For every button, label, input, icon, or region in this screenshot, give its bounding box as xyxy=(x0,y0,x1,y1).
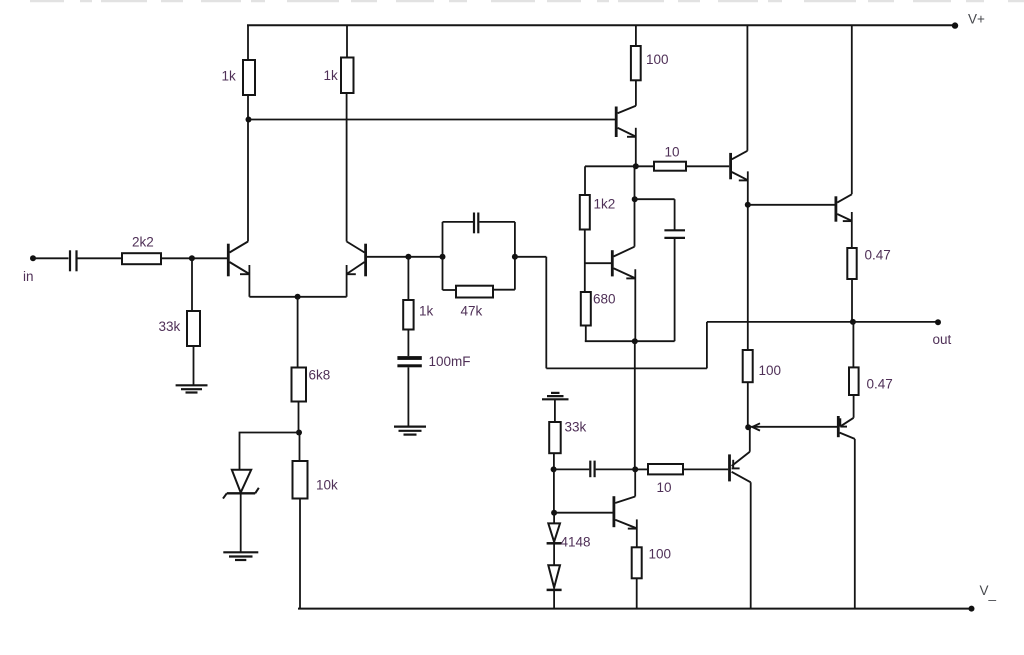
svg-text:100mF: 100mF xyxy=(429,354,471,369)
wire Q8 collector to rail xyxy=(851,25,853,194)
wire feedback up xyxy=(706,322,708,369)
wire Q5 emitter down xyxy=(636,519,638,547)
ground inverted bias xyxy=(542,393,569,399)
wire D2 to V- rail xyxy=(553,590,555,609)
wire 100 top to Q3 xyxy=(635,80,637,106)
wire Q2 base to node B xyxy=(367,256,409,258)
resistor 47k xyxy=(456,286,493,298)
resistor 680 xyxy=(581,292,591,326)
wire Q2 collector up xyxy=(346,93,348,242)
wire node K to Q5 base xyxy=(554,512,613,514)
wire Q6 collector to rail xyxy=(746,25,748,151)
input terminal dot xyxy=(30,255,36,261)
arrow on node M wire xyxy=(752,423,760,430)
wire D1 to D2 xyxy=(553,543,555,565)
resistor 10 lower xyxy=(648,464,683,474)
ground 100mF xyxy=(394,427,426,435)
resistor 6k8 xyxy=(292,368,307,402)
wire tail to 6k8 xyxy=(297,297,299,368)
resistor 2k2 xyxy=(122,253,161,264)
resistor 10k xyxy=(293,461,308,499)
svg-text:1k: 1k xyxy=(324,68,339,83)
wire 0.47 lower to Q9 emitter xyxy=(853,395,855,418)
transistor Q4 VAS xyxy=(612,247,635,279)
svg-text:100: 100 xyxy=(649,547,672,562)
out terminal dot xyxy=(935,319,941,325)
ground zener xyxy=(223,552,258,560)
V+ terminal dot xyxy=(952,22,958,28)
svg-text:33k: 33k xyxy=(159,319,181,334)
resistor 10 top xyxy=(654,162,686,171)
svg-text:in: in xyxy=(23,269,34,284)
node tail dot xyxy=(295,294,301,300)
wire Q7 emitter up xyxy=(749,427,751,452)
node C dot xyxy=(296,430,302,436)
wire node A to 33k xyxy=(191,258,193,311)
wire 10 lower to Q7 base xyxy=(683,468,728,470)
screenshot edge artifact dashes xyxy=(30,0,1024,2)
resistor 1k left xyxy=(243,60,255,95)
capacitor bias xyxy=(590,461,594,478)
wire Q4 collector up xyxy=(634,166,636,246)
capacitor C1 xyxy=(70,250,77,271)
wire in to C1 xyxy=(33,257,69,259)
node N dot xyxy=(850,319,856,325)
wire Q1 collector up xyxy=(247,95,249,242)
wire 1k left to rail xyxy=(247,25,249,60)
capacitor miller xyxy=(664,230,685,238)
wire feedback across xyxy=(546,367,707,369)
wire 1k right to rail xyxy=(346,25,348,57)
resistor 100 bias xyxy=(632,547,642,578)
node M dot xyxy=(745,424,751,430)
wire 0.47 upper to node N xyxy=(851,279,853,322)
wire out line xyxy=(853,321,938,323)
wire cap to node I xyxy=(596,468,636,470)
wire Q4 emitter down xyxy=(634,269,636,341)
wire Q7 collector to V- rail xyxy=(750,482,752,608)
V- terminal dot xyxy=(969,606,975,612)
wire 47k left xyxy=(443,289,457,291)
node A dot xyxy=(189,255,195,261)
zener diode Z1 xyxy=(223,470,259,499)
svg-text:10k: 10k xyxy=(316,478,338,493)
wire node F to 10 xyxy=(636,165,654,167)
transistor Q9 lower output xyxy=(838,416,855,439)
capacitor 100mF xyxy=(397,356,421,367)
diode D1 xyxy=(547,523,562,543)
wire comp top right xyxy=(479,221,515,223)
resistor 100 top xyxy=(631,46,641,80)
wire node C to 10k xyxy=(299,433,301,462)
node D dot xyxy=(440,254,446,260)
wire feedback to out line xyxy=(707,321,853,323)
node B dot xyxy=(405,254,411,260)
transistor Q6 upper driver xyxy=(731,151,748,181)
node G dot xyxy=(632,196,638,202)
wire node M to Q9 base xyxy=(748,426,837,428)
wire miller cap top xyxy=(674,199,676,230)
wire node B to node D xyxy=(408,256,442,258)
wire node F to 1k2 branch xyxy=(585,165,636,167)
svg-text:100: 100 xyxy=(759,363,782,378)
wire feedback down xyxy=(545,257,547,369)
svg-text:33k: 33k xyxy=(565,420,587,435)
wire Q2 emitter down xyxy=(346,265,348,297)
svg-text:10: 10 xyxy=(665,145,680,160)
wire node H down xyxy=(634,341,636,469)
svg-text:680: 680 xyxy=(593,292,616,307)
wire zener to ground xyxy=(240,493,242,551)
resistor 1k2 xyxy=(580,195,590,230)
resistor 1k mid xyxy=(403,300,413,330)
resistor 0.47 upper xyxy=(847,248,856,279)
wire 100mF to ground xyxy=(407,367,409,426)
svg-text:2k2: 2k2 xyxy=(132,235,154,250)
wire miller cap bottom xyxy=(674,238,676,341)
wire 6k8 to node C xyxy=(298,402,300,433)
resistor 33k input xyxy=(187,311,200,346)
wire 10k to V- rail xyxy=(299,499,301,609)
wire node D riser xyxy=(442,222,444,290)
transistor Q2 diff pair right xyxy=(347,242,366,277)
node L dot xyxy=(745,202,751,208)
junction dot collector bus xyxy=(246,117,252,123)
svg-text:1k: 1k xyxy=(419,304,434,319)
wire Q8 emitter down xyxy=(851,212,853,248)
V- rail xyxy=(298,608,972,610)
wire emitter join xyxy=(249,296,346,298)
svg-text:100: 100 xyxy=(646,52,669,67)
wire ground to 33k bias xyxy=(554,399,556,422)
wire Q4 base xyxy=(585,262,611,264)
node J dot xyxy=(551,466,557,472)
resistor 1k right xyxy=(341,58,354,94)
svg-text:out: out xyxy=(933,332,952,347)
svg-text:6k8: 6k8 xyxy=(309,368,331,383)
wire 1k2 top xyxy=(584,166,586,195)
node E dot xyxy=(512,254,518,260)
resistor 33k bias xyxy=(549,422,561,453)
svg-text:10: 10 xyxy=(657,480,672,495)
wire Q6 emitter down xyxy=(747,171,749,350)
wire node G to miller cap xyxy=(635,198,675,200)
wire 100 bias to V- rail xyxy=(636,578,638,608)
wire node B to 1k mid xyxy=(407,257,409,300)
wire 1k mid to 100mF xyxy=(407,330,409,357)
svg-text:1k2: 1k2 xyxy=(594,197,616,212)
svg-text:4148: 4148 xyxy=(561,535,591,550)
wire Q3 emitter down xyxy=(635,128,637,167)
wire 10 to Q6 base xyxy=(686,165,729,167)
wire 100 right to node M xyxy=(747,382,749,427)
wire C1 to R 2k2 xyxy=(78,257,123,259)
wire node N to 0.47 lower xyxy=(852,322,854,368)
wire Q9 collector to V- rail xyxy=(854,439,856,609)
wire node J to cap xyxy=(554,468,590,470)
node I dot xyxy=(632,466,638,472)
wire 680 bottom xyxy=(585,326,587,342)
diode D2 xyxy=(547,565,562,590)
wire node E riser xyxy=(514,222,516,290)
resistor 0.47 lower xyxy=(849,367,859,395)
wire 1k2 to 680 xyxy=(584,230,586,293)
wire comp top left xyxy=(443,221,474,223)
node K dot xyxy=(551,510,557,516)
svg-text:47k: 47k xyxy=(461,304,483,319)
ground input xyxy=(176,385,208,392)
svg-text:0.47: 0.47 xyxy=(867,377,893,392)
capacitor comp xyxy=(474,213,478,234)
V+ rail xyxy=(247,24,955,26)
transistor Q1 diff pair left xyxy=(228,242,249,277)
wire node L to Q8 base xyxy=(748,204,835,206)
wire 33k to ground xyxy=(193,346,195,385)
transistor Q3 pre-driver xyxy=(616,106,636,137)
svg-text:1k: 1k xyxy=(222,69,237,84)
wire collector bus to Q3 base xyxy=(249,119,616,121)
svg-text:V_: V_ xyxy=(980,583,997,601)
resistor 100 right xyxy=(743,350,753,382)
svg-text:V+: V+ xyxy=(968,12,985,27)
wire node C to zener xyxy=(240,433,300,470)
wire node I to 10 lower xyxy=(635,468,648,470)
transistor Q5 bias xyxy=(614,496,637,528)
wire rail to 100 top xyxy=(635,25,637,46)
wire node E right xyxy=(515,256,546,258)
wire 47k right xyxy=(493,289,515,291)
node H dot xyxy=(632,338,638,344)
wire 2k2 to Q1 base xyxy=(161,257,227,259)
svg-text:0.47: 0.47 xyxy=(865,248,891,263)
wire VAS bottom bus xyxy=(585,340,675,342)
transistor Q8 upper output xyxy=(836,194,852,221)
transistor Q7 lower driver xyxy=(730,452,751,483)
wire 33k bias down xyxy=(553,453,555,469)
wire node K to D1 xyxy=(553,513,555,524)
wire Q1 emitter down xyxy=(248,265,250,297)
node F dot xyxy=(633,163,639,169)
wire node J down xyxy=(553,469,555,512)
wire node I to Q5 collector xyxy=(634,469,636,496)
